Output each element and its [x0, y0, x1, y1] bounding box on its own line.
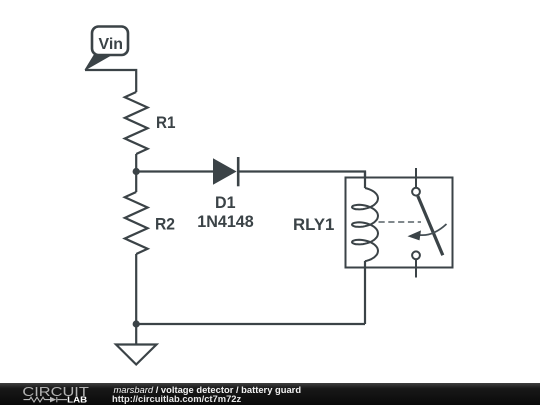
wire diode cathode to relay coil: [238, 172, 365, 189]
svg-text:Vin: Vin: [99, 36, 124, 53]
wire R1 bottom to node: [135, 154, 137, 172]
relay actuation arrow: [408, 224, 447, 240]
node Vin flag: [85, 27, 128, 71]
wire coil bottom to bottom rail: [364, 261, 366, 324]
footer bar: [0, 383, 540, 405]
relay switch arm: [418, 196, 443, 255]
relay switch top pin: [415, 168, 417, 188]
svg-text:LAB: LAB: [67, 395, 87, 404]
relay coil: [352, 188, 378, 261]
relay RLY1 box: [346, 178, 453, 268]
ground: [116, 324, 157, 365]
relay dashed actuation line: [379, 221, 422, 223]
svg-text:1N4148: 1N4148: [197, 212, 254, 231]
resistor R2: [135, 172, 137, 193]
svg-text:D1: D1: [215, 193, 236, 212]
node junction bottom (dot): [133, 320, 140, 327]
CircuitLab logo: [22, 385, 89, 404]
svg-text:http://circuitlab.com/ct7m72z: http://circuitlab.com/ct7m72z: [112, 393, 242, 404]
svg-text:RLY1: RLY1: [293, 215, 334, 234]
svg-text:R1: R1: [156, 113, 176, 132]
relay switch bottom contact: [412, 251, 420, 259]
resistor R1: [125, 92, 148, 154]
relay switch top contact: [412, 188, 420, 196]
diode D1: [213, 157, 238, 186]
wire Vin to R1 top: [85, 70, 136, 92]
relay switch bottom pin: [415, 259, 417, 277]
svg-text:R2: R2: [155, 215, 175, 234]
wire node to diode anode: [136, 170, 213, 172]
wire re-draw coil entry over box edge: [364, 172, 366, 189]
node junction top (dot): [133, 168, 140, 175]
wire bottom rail: [136, 323, 365, 325]
wire R2 bottom to node: [135, 254, 137, 324]
